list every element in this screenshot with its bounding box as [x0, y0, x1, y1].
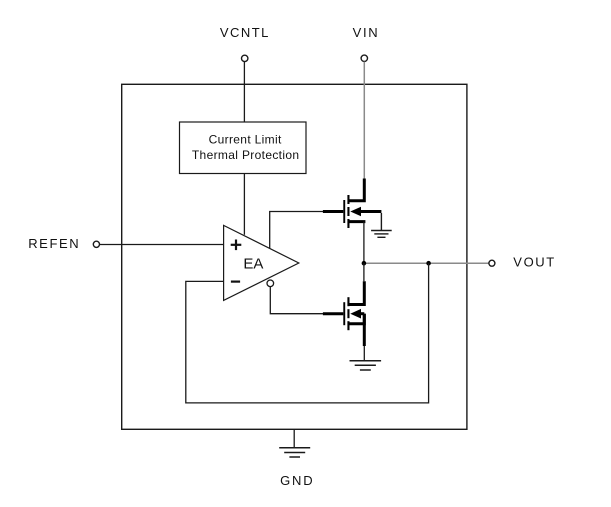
- wire GND stem: [293, 429, 295, 447]
- ground (Q1 body): [371, 213, 392, 237]
- EA triangle body: [224, 225, 299, 300]
- terminal VCNTL: [242, 55, 248, 61]
- ground (GND pin): [279, 448, 310, 457]
- Q2 body arrow: [350, 309, 361, 319]
- Q2 gate lead: [323, 312, 343, 315]
- terminal REFEN: [93, 241, 99, 247]
- svg-text:VIN: VIN: [353, 25, 380, 40]
- Q1 body lead: [359, 210, 381, 213]
- svg-text:Current Limit: Current Limit: [209, 132, 282, 146]
- plus input marker: [231, 240, 242, 251]
- output rail to VOUT: [364, 262, 489, 264]
- junction dot feedback tap: [426, 261, 431, 266]
- Q2 body lead: [359, 312, 364, 315]
- feedback wire VOUT to EA inverting input: [186, 263, 429, 403]
- Q2 source stub and lead: [349, 314, 365, 324]
- terminal VIN: [361, 55, 367, 61]
- Q1 gate bar: [343, 200, 345, 223]
- transistor Q1 (upper pass FET): [323, 179, 382, 229]
- wire VCNTL to current-limit block: [243, 62, 245, 122]
- Q1 channel segments: [347, 195, 349, 204]
- Q2 channel segments: [347, 297, 349, 306]
- op-amp EA: [224, 225, 299, 300]
- Q1 source stub: [349, 220, 366, 223]
- Q2 drain stub: [349, 281, 365, 304]
- Q1 gate lead: [323, 210, 343, 213]
- minus input marker: [231, 281, 240, 283]
- wire Q1 source to output node: [363, 222, 365, 264]
- svg-text:VOUT: VOUT: [513, 255, 556, 270]
- Q1 body arrow: [350, 207, 361, 217]
- svg-text:REFEN: REFEN: [28, 236, 80, 251]
- terminal VOUT: [489, 260, 495, 266]
- svg-text:EA: EA: [243, 256, 263, 273]
- Q2 gate bar: [343, 302, 345, 325]
- IC boundary: [122, 84, 467, 429]
- ground (Q2 source): [350, 361, 382, 370]
- wire Q2 drain to output node: [363, 263, 365, 281]
- wire Q2 source to ground: [363, 346, 365, 360]
- wire EA top edge to Q1 gate: [270, 212, 324, 249]
- svg-text:VCNTL: VCNTL: [220, 25, 270, 40]
- transistor Q2 (lower FET): [323, 281, 364, 346]
- wire VIN to Q1 drain: [363, 62, 365, 179]
- junction dot Q1/Q2 output: [362, 261, 367, 266]
- wire EA inverted output to Q2 gate: [270, 287, 323, 314]
- svg-text:GND: GND: [280, 473, 314, 488]
- block U1: Current Limit / Thermal Protection: [180, 122, 307, 174]
- wire current-limit block to EA: [243, 174, 245, 235]
- svg-text:Thermal Protection: Thermal Protection: [192, 148, 300, 162]
- Q1 drain stub: [349, 179, 365, 201]
- EA inverted output bubble: [267, 280, 274, 287]
- wire REFEN to EA non-inverting input: [100, 244, 224, 246]
